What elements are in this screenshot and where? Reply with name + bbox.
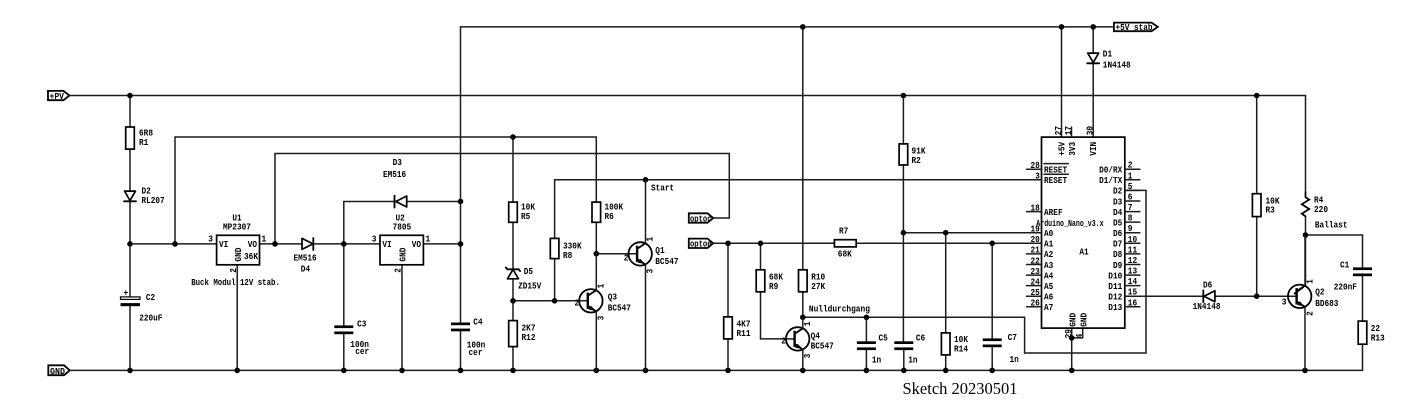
svg-text:91K: 91K <box>912 146 927 156</box>
capacitor C7 <box>983 333 1019 365</box>
resistor R1 <box>126 127 153 149</box>
resistor R6 <box>592 202 624 222</box>
wire optoc 12V line <box>275 154 729 244</box>
svg-text:+PV: +PV <box>50 92 65 102</box>
svg-text:C5: C5 <box>879 334 888 344</box>
svg-text:D1: D1 <box>1103 49 1113 59</box>
svg-text:18: 18 <box>1031 203 1040 213</box>
svg-text:A4: A4 <box>1044 271 1054 281</box>
svg-text:28: 28 <box>1031 161 1040 171</box>
resistor R9 <box>756 270 783 292</box>
svg-text:1: 1 <box>596 283 606 288</box>
wire C5 top <box>865 317 867 341</box>
svg-text:VO: VO <box>248 240 258 250</box>
wire R9 bottom to Q4 base <box>760 292 762 339</box>
resistor R8 <box>550 238 582 260</box>
wire GND rail <box>70 369 1363 371</box>
junction dot Q1 collector Start <box>643 177 649 183</box>
net flag GND <box>48 365 70 377</box>
svg-text:15: 15 <box>1128 288 1137 298</box>
junction dots Nulldurchgang <box>800 315 869 321</box>
wire D12 to Q2 base <box>1125 295 1296 297</box>
wire R14 bottom <box>945 355 947 371</box>
svg-text:A5: A5 <box>1044 282 1053 292</box>
svg-text:D9: D9 <box>1113 261 1122 271</box>
transistor Q2 BD683 <box>1282 235 1339 370</box>
svg-text:D5: D5 <box>524 267 533 277</box>
svg-text:A7: A7 <box>1044 303 1053 313</box>
capacitor C2 electrolytic <box>121 289 163 324</box>
svg-text:14: 14 <box>1128 277 1138 287</box>
svg-text:27: 27 <box>1054 126 1064 135</box>
junction dots +PV rail <box>127 93 1259 99</box>
svg-text:D6: D6 <box>1113 229 1122 239</box>
resistor R4 zigzag <box>1302 192 1328 216</box>
wire R14 top <box>945 233 947 333</box>
junction dots optoe line <box>725 241 995 247</box>
svg-text:GND: GND <box>1080 312 1090 327</box>
wire U1 GND down <box>236 265 238 371</box>
svg-text:68K: 68K <box>838 250 853 260</box>
resistor R2 <box>899 144 926 166</box>
regulator U1 MP2307 <box>208 213 266 272</box>
svg-text:1n: 1n <box>872 356 881 366</box>
wire R4 to C1 branch <box>1306 235 1363 267</box>
svg-text:D11: D11 <box>1108 282 1123 292</box>
svg-text:3: 3 <box>208 235 213 245</box>
svg-text:cer: cer <box>355 347 369 357</box>
svg-text:2: 2 <box>575 298 580 308</box>
diode D2 RL207 <box>124 187 165 206</box>
wire R2 vertical <box>902 96 904 342</box>
resistor R14 <box>941 333 968 355</box>
svg-text:11: 11 <box>1128 245 1138 255</box>
wire +5V_stab top rail <box>461 26 1114 28</box>
junction dots Q3 base line <box>510 298 557 304</box>
svg-text:21: 21 <box>1031 246 1041 256</box>
resistor R7 <box>834 226 856 259</box>
svg-text:24: 24 <box>1031 277 1041 287</box>
wire Q4 base <box>761 338 795 340</box>
svg-text:7805: 7805 <box>393 223 412 233</box>
svg-text:20: 20 <box>1031 235 1040 245</box>
svg-text:1: 1 <box>1305 279 1315 284</box>
svg-text:D10: D10 <box>1108 271 1122 281</box>
svg-text:R3: R3 <box>1266 206 1275 216</box>
wire R11 bottom <box>727 339 729 371</box>
svg-text:3: 3 <box>596 316 606 321</box>
svg-text:8: 8 <box>1128 214 1133 224</box>
wire R3 vertical <box>1256 96 1258 297</box>
svg-text:C7: C7 <box>1008 333 1017 343</box>
svg-text:C1: C1 <box>1340 260 1350 270</box>
svg-text:GND: GND <box>50 367 66 377</box>
svg-text:+5V_stab: +5V_stab <box>1116 23 1153 33</box>
svg-text:D12: D12 <box>1108 293 1122 303</box>
wire R8 bottom <box>554 259 556 301</box>
svg-text:A2: A2 <box>1044 250 1053 260</box>
svg-text:A0: A0 <box>1044 229 1053 239</box>
svg-text:C2: C2 <box>146 293 155 303</box>
capacitor C5 <box>857 334 888 366</box>
transistor Q4 BC547 <box>781 317 834 370</box>
wire R5 D5 R12 branch x513 <box>512 137 514 370</box>
svg-text:2: 2 <box>781 336 786 346</box>
svg-text:ZD15V: ZD15V <box>518 282 542 292</box>
svg-text:D3: D3 <box>1113 197 1122 207</box>
svg-text:9: 9 <box>1128 224 1133 234</box>
junction dot arduino gnd <box>1069 335 1075 341</box>
svg-text:1: 1 <box>426 235 431 245</box>
svg-text:VI: VI <box>382 240 391 250</box>
wire optoe A1 line <box>713 242 1042 244</box>
svg-text:R7: R7 <box>839 226 848 236</box>
wire R4 vertical <box>1305 96 1307 286</box>
svg-text:36K: 36K <box>244 252 259 262</box>
svg-text:3: 3 <box>646 269 656 274</box>
capacitor C6 <box>894 334 925 366</box>
wire Start / RESET line <box>555 180 1042 239</box>
capacitor C4 <box>451 318 485 358</box>
svg-text:4: 4 <box>1075 333 1085 338</box>
svg-text:Arduino_Nano_v3.x: Arduino_Nano_v3.x <box>1036 219 1104 229</box>
svg-text:Q2: Q2 <box>1315 288 1324 298</box>
svg-text:D8: D8 <box>1113 250 1122 260</box>
svg-text:Sketch 20230501: Sketch 20230501 <box>903 379 1018 398</box>
svg-text:A1: A1 <box>1079 248 1089 258</box>
svg-text:5: 5 <box>1128 182 1133 192</box>
wire R1 D2 C2 branch x130 <box>129 96 131 371</box>
svg-text:220: 220 <box>1314 205 1328 215</box>
svg-text:2: 2 <box>624 254 629 264</box>
junction dots +5V_stab rail <box>800 24 1096 30</box>
svg-text:6: 6 <box>1128 193 1133 203</box>
svg-text:RL207: RL207 <box>142 196 165 206</box>
wire C1 R13 vertical <box>1362 274 1364 371</box>
transistor Q1 BC547 <box>624 180 679 371</box>
svg-text:R4: R4 <box>1314 196 1324 206</box>
wire C5 bottom <box>865 350 867 370</box>
svg-text:A1: A1 <box>1044 240 1054 250</box>
junction dot R4 C1 <box>1303 232 1309 238</box>
svg-text:2K7: 2K7 <box>522 324 536 334</box>
svg-text:D6: D6 <box>1203 281 1212 291</box>
wire C3 branch <box>343 244 345 371</box>
wire R6 Q3 collector x596 <box>595 202 597 254</box>
svg-text:D13: D13 <box>1108 303 1122 313</box>
svg-text:RESET: RESET <box>1044 176 1068 186</box>
svg-text:3: 3 <box>372 235 377 245</box>
resistor R5 <box>509 202 536 222</box>
svg-text:R5: R5 <box>521 212 530 222</box>
resistor R13 <box>1358 321 1385 344</box>
svg-text:1n: 1n <box>1010 355 1019 365</box>
wire pin27 +5V vertical <box>1061 27 1063 137</box>
capacitor C3 <box>334 319 369 356</box>
svg-text:Start: Start <box>651 183 674 193</box>
junction dot D3 right <box>458 199 464 205</box>
svg-text:1N4148: 1N4148 <box>1103 60 1131 70</box>
svg-text:BD683: BD683 <box>1315 299 1338 309</box>
svg-text:26: 26 <box>1031 299 1040 309</box>
net flag optoe <box>689 239 713 250</box>
svg-text:D3: D3 <box>393 158 402 168</box>
svg-text:MP2307: MP2307 <box>223 223 251 233</box>
svg-text:30: 30 <box>1085 126 1095 135</box>
wire +PV rail <box>69 95 1305 97</box>
svg-text:R13: R13 <box>1371 333 1385 343</box>
wire arduino gnd pins <box>1072 328 1083 370</box>
wire U2 GND down <box>401 265 403 371</box>
svg-text:D7: D7 <box>1113 240 1122 250</box>
capacitor C1 <box>1334 260 1372 292</box>
svg-text:220nF: 220nF <box>1334 282 1357 292</box>
wire R10 bottom <box>802 292 804 318</box>
svg-text:BC547: BC547 <box>655 257 678 267</box>
svg-text:optoc: optoc <box>690 214 712 224</box>
svg-text:GND: GND <box>234 247 244 262</box>
wire Q1 base <box>596 253 636 255</box>
svg-text:Q3: Q3 <box>608 293 617 303</box>
arduino nano A1 <box>1027 126 1140 338</box>
svg-text:2: 2 <box>229 268 239 273</box>
resistor R11 <box>724 317 751 339</box>
svg-text:3: 3 <box>1035 172 1040 182</box>
net flag +5V_stab <box>1114 23 1158 33</box>
wire A0 line <box>903 232 1041 234</box>
svg-text:cer: cer <box>469 348 483 358</box>
svg-text:3V3: 3V3 <box>1068 142 1078 156</box>
svg-text:1N4148: 1N4148 <box>1193 302 1221 312</box>
svg-text:EM516: EM516 <box>383 170 406 180</box>
svg-text:GND: GND <box>1069 312 1079 327</box>
svg-text:+5V: +5V <box>1058 141 1068 156</box>
svg-text:3: 3 <box>1282 298 1287 308</box>
svg-text:R14: R14 <box>954 344 969 354</box>
svg-text:D5: D5 <box>1113 218 1122 228</box>
svg-text:C3: C3 <box>357 319 366 329</box>
net flag optoc <box>689 213 713 224</box>
wire Q3 base line <box>513 300 588 302</box>
svg-text:29: 29 <box>1064 329 1074 338</box>
svg-text:VIN: VIN <box>1089 142 1099 156</box>
svg-text:R9: R9 <box>769 282 778 292</box>
svg-text:22: 22 <box>1031 256 1040 266</box>
svg-text:3: 3 <box>803 354 813 359</box>
svg-text:R8: R8 <box>563 251 572 261</box>
svg-text:13: 13 <box>1128 267 1137 277</box>
svg-text:Q4: Q4 <box>811 332 821 342</box>
diode D4 EM516 <box>294 238 317 274</box>
svg-text:Buck Modul 12V stab.: Buck Modul 12V stab. <box>191 278 280 288</box>
svg-text:D2: D2 <box>1113 187 1122 197</box>
svg-text:R2: R2 <box>912 156 921 166</box>
junction dot Q1 base <box>594 251 600 257</box>
diode D6 1N4148 <box>1193 281 1221 312</box>
junction dots A0 line <box>901 230 949 236</box>
svg-text:AREF: AREF <box>1044 208 1063 218</box>
junction dot R5 top <box>510 134 516 140</box>
svg-text:R12: R12 <box>522 333 536 343</box>
svg-text:D0/RX: D0/RX <box>1099 166 1123 176</box>
svg-text:27K: 27K <box>811 282 826 292</box>
transistor Q3 BC547 <box>575 254 631 371</box>
svg-text:2: 2 <box>394 268 404 273</box>
diode D3 EM516 <box>383 158 407 208</box>
resistor R10 <box>799 270 826 292</box>
svg-text:Nulldurchgang: Nulldurchgang <box>809 305 870 315</box>
svg-text:VO: VO <box>412 240 422 250</box>
svg-text:17: 17 <box>1064 126 1074 135</box>
svg-text:EM516: EM516 <box>294 253 317 263</box>
zener diode D5 ZD15V <box>506 267 542 292</box>
wire VIN D1 vertical <box>1092 27 1094 137</box>
junction dots main row <box>127 241 463 247</box>
wire C7 branch <box>991 243 993 370</box>
svg-text:VI: VI <box>219 240 228 250</box>
svg-text:C6: C6 <box>916 334 925 344</box>
wire battery line y137 <box>175 137 596 244</box>
svg-text:A6: A6 <box>1044 293 1053 303</box>
svg-text:1: 1 <box>803 321 813 326</box>
svg-text:220uF: 220uF <box>139 313 162 323</box>
svg-text:2: 2 <box>1128 161 1133 171</box>
svg-text:1: 1 <box>646 236 656 241</box>
svg-text:Q1: Q1 <box>655 246 665 256</box>
svg-text:1: 1 <box>262 235 267 245</box>
svg-text:16: 16 <box>1128 298 1137 308</box>
resistor R3 <box>1252 194 1280 217</box>
wire D3 bypass line <box>344 202 461 244</box>
junction dot Q2 base R3 <box>1254 293 1260 299</box>
wire main 12V row left <box>130 243 461 245</box>
svg-text:25: 25 <box>1031 288 1040 298</box>
wire R11 top <box>727 243 729 317</box>
svg-text:+: + <box>124 289 129 299</box>
svg-text:12: 12 <box>1128 256 1137 266</box>
wire C6 bottom <box>903 350 905 370</box>
regulator U2 7805 <box>372 213 431 272</box>
svg-text:GND: GND <box>399 247 409 262</box>
wire Nulldurchgang line <box>803 190 1146 353</box>
svg-text:23: 23 <box>1031 267 1040 277</box>
svg-text:BC547: BC547 <box>608 303 631 313</box>
wire R10 vertical +5V <box>802 27 804 270</box>
svg-text:Ballast: Ballast <box>1315 221 1348 231</box>
svg-text:2: 2 <box>1305 311 1315 316</box>
svg-text:10: 10 <box>1128 235 1137 245</box>
svg-text:BC547: BC547 <box>811 342 834 352</box>
svg-text:1: 1 <box>1128 171 1133 181</box>
svg-text:D4: D4 <box>301 264 311 274</box>
wire R9 top <box>760 243 762 269</box>
svg-text:R11: R11 <box>737 329 752 339</box>
svg-text:C4: C4 <box>473 318 483 328</box>
svg-text:R6: R6 <box>605 212 614 222</box>
svg-text:D1/TX: D1/TX <box>1099 176 1123 186</box>
junction dots GND rail <box>127 368 1308 374</box>
wire 5V vertical x460 <box>460 27 462 371</box>
svg-text:A3: A3 <box>1044 261 1053 271</box>
svg-text:D4: D4 <box>1113 208 1123 218</box>
svg-text:7: 7 <box>1128 203 1133 213</box>
svg-text:optoe: optoe <box>690 240 712 250</box>
net flag +PV <box>48 91 69 102</box>
svg-text:R1: R1 <box>139 138 149 148</box>
svg-text:1n: 1n <box>908 356 917 366</box>
diode D1 1N4148 <box>1087 49 1131 70</box>
resistor R12 <box>509 321 536 347</box>
